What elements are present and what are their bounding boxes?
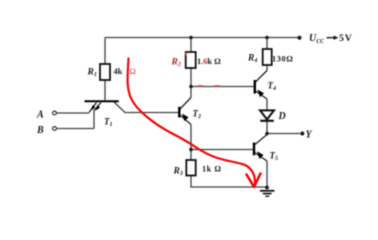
svg-text:A: A	[36, 110, 44, 121]
svg-text:1.6k Ω: 1.6k Ω	[197, 57, 221, 66]
svg-text:4k: 4k	[114, 67, 123, 76]
svg-text:R4: R4	[247, 54, 257, 65]
svg-text:UCC: UCC	[309, 33, 324, 45]
svg-text:R1: R1	[87, 68, 97, 79]
svg-text:B: B	[36, 125, 44, 136]
svg-text:T1: T1	[104, 117, 113, 129]
svg-text:5V: 5V	[339, 33, 353, 44]
svg-text:D: D	[278, 111, 286, 122]
svg-text:1k Ω: 1k Ω	[202, 165, 221, 174]
svg-text:Y: Y	[306, 129, 313, 140]
svg-text:R3: R3	[173, 167, 183, 178]
svg-text:R2: R2	[171, 58, 181, 69]
svg-text:T2: T2	[193, 109, 202, 121]
svg-text:T4: T4	[268, 81, 277, 93]
svg-text:130Ω: 130Ω	[272, 55, 294, 64]
svg-text:T5: T5	[270, 151, 279, 163]
svg-text:Ω: Ω	[130, 66, 136, 76]
